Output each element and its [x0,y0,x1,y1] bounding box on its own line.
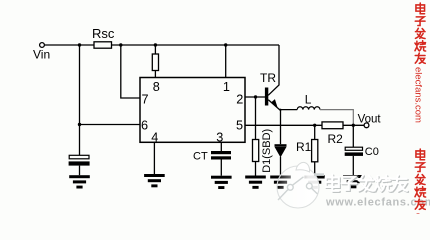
wire pin 1 [225,45,227,78]
node base junction [254,95,257,98]
svg-text:L: L [305,92,312,106]
capacitor CT plate top [211,151,231,154]
watermark red strip bottom [412,149,425,220]
node C0 tee [352,124,355,127]
svg-text:R2: R2 [328,132,344,146]
svg-text:Rsc: Rsc [92,26,115,41]
svg-text:7: 7 [142,92,149,106]
capacitor CT plate bottom [211,156,231,159]
watermark logo elecfans disc [277,162,324,208]
logo trace [278,175,324,200]
watermark red strip top [412,3,425,123]
svg-text:5: 5 [236,119,243,133]
wire top from Vin to Rsc [45,44,94,46]
IC U1 box [140,78,245,143]
svg-text:R1: R1 [296,140,312,154]
ground G2 base resistor [245,176,266,189]
svg-text:2: 2 [236,92,243,106]
svg-text:www.elecfans.com: www.elecfans.com [325,197,430,209]
capacitor C0 wire [352,125,354,147]
transistor TR emitter arrow [271,99,278,108]
resistor Rsc [94,42,112,48]
wire R1 to ground [314,162,316,176]
ground G pin4 [144,174,165,187]
ground G5 C0 [343,175,364,188]
inductor L coil [297,107,320,110]
svg-text:el: el [412,213,423,214]
svg-text:1: 1 [223,80,230,94]
node input junction [78,43,81,46]
wire pin 4 down [153,142,155,174]
wire R1 down [314,125,316,139]
wire pin 6 [80,124,141,126]
capacitor Cin plate bottom [69,161,90,165]
capacitor Cin wire bottom [79,166,81,176]
wire collector drop [268,45,279,95]
svg-text:elecfans.com: elecfans.com [412,67,423,123]
svg-text:CT: CT [193,150,208,162]
svg-text:3: 3 [216,130,223,144]
resistor R top (pin 8) [152,54,158,71]
resistor R1 [312,140,318,162]
capacitor C0 wire bottom [352,156,354,175]
wire pin 2 [245,96,265,98]
svg-text:C0: C0 [365,146,379,158]
node pin1 top [224,43,227,46]
diode D1 triangle [275,147,287,157]
svg-text:4: 4 [151,130,158,144]
diode D1 wire top [280,110,282,145]
capacitor CT wire bottom [220,160,222,176]
wire pin 7 [121,45,140,98]
ground G CT [211,176,232,189]
terminal Vin [40,43,45,48]
ground G3 diode [270,176,291,189]
wire resistor to ground [255,162,257,176]
wire top from Rsc to collector corner [112,44,280,46]
node after Rsc [119,43,122,46]
capacitor C0 plate bottom [345,152,363,156]
ground G4 R1 [304,176,325,189]
wire coil to corner [320,110,353,126]
terminal Vout [364,123,369,128]
watermark text CJK gray [326,175,408,192]
node R1 tee [313,124,316,127]
svg-text:Vin: Vin [33,48,50,62]
node resistor top [154,43,157,46]
svg-text:6: 6 [141,119,148,133]
wire resistor to pin 8 [154,45,156,78]
diode D1 wire bottom [280,157,282,176]
resistor base bleed [253,140,259,162]
wire pin 5 row [245,124,322,126]
resistor R2 [322,122,343,129]
wire input vertical to capacitor [79,45,81,155]
wire pin 3 down [220,142,222,151]
node diode top elbow [279,109,281,111]
wire base node down [255,97,257,140]
wire R2 to Vout [343,124,364,126]
capacitor Cin plate top [69,155,89,159]
svg-text:Vout: Vout [358,114,382,126]
transistor Q TR base bar [265,88,268,106]
svg-text:TR: TR [260,71,276,85]
node pin6 tee [78,123,81,126]
transistor TR emitter [268,100,280,110]
svg-text:D1(SBD): D1(SBD) [261,129,273,173]
diode D1 cathode bar [275,144,287,147]
ground G1 input cap [69,175,90,188]
svg-text:8: 8 [153,80,160,94]
capacitor C0 plate top [345,147,362,150]
wire emitter to coil [280,109,297,111]
logo leaf [296,162,310,172]
